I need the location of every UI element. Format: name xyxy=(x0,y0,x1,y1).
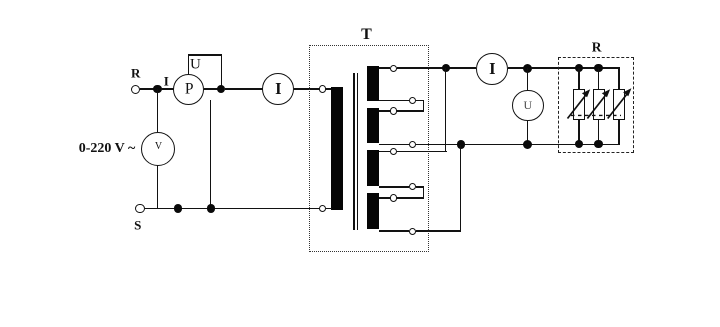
wire terminal b4 to return corner xyxy=(416,230,461,232)
wire dot to ammeter I1 xyxy=(225,88,263,90)
rheostat arrows and gang line (svg) xyxy=(560,82,640,127)
secondary winding bar 1 xyxy=(367,66,379,101)
arrow rheostat 2 xyxy=(587,94,607,119)
bottom rail S to transformer xyxy=(145,208,319,210)
junction dot at R line xyxy=(153,85,161,93)
junction dot top line xyxy=(442,64,450,72)
branch vertical from top node down to winding3 xyxy=(445,68,447,151)
wire link2 terminal to winding4 top xyxy=(379,197,391,199)
link2 vertical xyxy=(423,186,425,199)
wire R terminal to junction xyxy=(140,88,154,90)
junction dot rheostat2 top xyxy=(594,64,602,72)
primary winding bar xyxy=(331,87,343,210)
wire rheostat1 top stub xyxy=(578,68,580,89)
wire winding2 bottom to terminal xyxy=(379,144,410,146)
transformer T dotted enclosure xyxy=(309,45,429,252)
label U (wattmeter voltage coil) xyxy=(190,57,201,72)
rheostat 2 body xyxy=(593,89,605,121)
wire primary bottom terminal to winding xyxy=(326,208,331,210)
core line 1 xyxy=(353,73,355,231)
wire terminal a3 to winding3 xyxy=(379,151,391,153)
middle output line to load rail xyxy=(416,144,619,146)
link2 lower wire xyxy=(397,197,424,199)
junction dot after P xyxy=(217,85,225,93)
junction dot below U xyxy=(523,140,532,149)
node R (label) xyxy=(131,66,140,79)
core line 2 xyxy=(357,73,359,231)
return vertical winding4 to middle node xyxy=(460,145,462,232)
wire primary top terminal to winding xyxy=(326,88,331,90)
secondary terminal b3 (link2 top) xyxy=(409,183,416,190)
primary top terminal xyxy=(319,85,327,93)
wattmeter P xyxy=(173,74,204,105)
wire voltmeter V down to bottom rail xyxy=(157,165,159,209)
secondary terminal a1 xyxy=(390,65,397,72)
ammeter I2 xyxy=(476,53,508,85)
arrow rheostat 3 xyxy=(608,93,629,119)
label R (load) xyxy=(592,40,602,54)
voltmeter V xyxy=(141,132,175,166)
wire branch to terminal a3 xyxy=(397,151,447,153)
secondary terminal a3 (winding3 top) xyxy=(390,148,397,155)
secondary winding bar 2 xyxy=(367,108,379,143)
secondary terminal a2 (link bottom) xyxy=(390,107,397,114)
link2 wire to corner xyxy=(416,186,424,188)
wire P to junction dot 2 xyxy=(204,88,222,90)
wattmeter U voltage-coil box left side xyxy=(188,54,190,75)
secondary terminal b2 (middle output) xyxy=(409,141,416,148)
wire rheostat3 bottom stub xyxy=(618,120,620,144)
wire rheostat3 top stub xyxy=(618,68,620,89)
wire winding1 top to terminal xyxy=(379,67,391,69)
terminal R xyxy=(131,85,140,94)
voltmeter U xyxy=(512,90,544,122)
gang dashed coupling line xyxy=(571,114,621,116)
node I (current label) xyxy=(164,74,169,87)
terminal S xyxy=(135,204,145,214)
junction dot on bottom rail 1 xyxy=(174,204,182,212)
ammeter I1 xyxy=(262,73,294,105)
junction dot rheostat2 bottom xyxy=(594,140,602,148)
label 0-220 V ~ xyxy=(79,142,136,156)
wattmeter voltage-coil return wire (with gap below line) xyxy=(210,100,212,210)
rheostat 3 body xyxy=(613,89,625,121)
wire ammeter I2 to junction dot xyxy=(508,67,527,69)
wire winding1 bottom to link terminal xyxy=(379,100,410,102)
wire rheostat1 bottom stub xyxy=(578,120,580,144)
junction dot rheostat1 bottom xyxy=(575,140,583,148)
junction dot after I2 xyxy=(523,64,532,73)
wire voltmeter U down to bottom junction xyxy=(527,121,529,144)
load R dashed enclosure xyxy=(558,57,634,153)
wire link terminal to winding2 top xyxy=(379,110,391,112)
junction dot on bottom rail 2 (voltage-coil return) xyxy=(207,204,215,212)
wire terminal a1 to ammeter I2 (secondary top line) xyxy=(397,67,476,69)
wire rheostat2 top stub xyxy=(598,68,600,89)
wire winding3 bottom to link2 terminal xyxy=(379,186,410,188)
link vertical xyxy=(423,100,425,112)
junction dot middle line xyxy=(457,140,465,148)
wire junction to wattmeter P xyxy=(161,88,175,90)
wire junction to R box top rail xyxy=(531,67,620,69)
link lower wire xyxy=(397,110,424,112)
wattmeter U voltage-coil box right side xyxy=(221,54,223,89)
wattmeter U voltage-coil box top side xyxy=(188,54,222,56)
wire winding4 bottom to terminal xyxy=(379,230,410,232)
wire junction down to voltmeter V xyxy=(157,89,159,132)
node S (label) xyxy=(134,219,141,232)
arrow rheostat 1 xyxy=(568,94,588,119)
primary bottom terminal xyxy=(319,205,327,213)
secondary winding bar 4 xyxy=(367,193,379,230)
rheostat 1 body xyxy=(573,89,585,121)
wire ammeter I1 to transformer primary terminal xyxy=(294,88,319,90)
secondary terminal b4 (winding4 bottom) xyxy=(409,228,416,235)
label T xyxy=(361,27,372,43)
secondary terminal b1 (link top) xyxy=(409,97,416,104)
junction dot rheostat1 top xyxy=(575,64,583,72)
wire rheostat2 bottom stub xyxy=(598,120,600,144)
secondary terminal a4 (link2 bottom) xyxy=(390,194,397,201)
wire junction down to voltmeter U xyxy=(527,68,529,90)
link wire to corner xyxy=(416,100,424,102)
secondary winding bar 3 xyxy=(367,150,379,186)
